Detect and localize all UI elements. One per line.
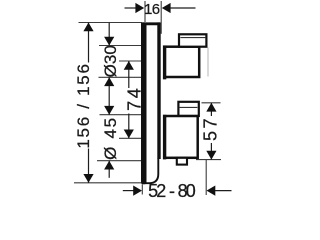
plate right edge (thick, upper part) — [157, 22, 160, 159]
upper knob main left edge (thick) — [163, 45, 166, 79]
lower knob top cap — [178, 102, 198, 116]
extension line 16 left — [144, 1, 146, 22]
plate inner line lower right + bottom edge — [142, 159, 159, 184]
tick Ø45 bottom — [97, 160, 141, 162]
dim line Ø30/Ø45 chain — [108, 23, 110, 46]
dim line 74 — [128, 61, 130, 88]
arrow 74 bottom (down) — [124, 130, 134, 139]
plate top edge — [141, 22, 161, 25]
tick Ø45 top — [100, 114, 142, 116]
arrow 16 left (right-pointing) — [135, 3, 144, 13]
arrow 156 top (up) — [83, 23, 93, 32]
arrow 52-80 right (left-pointing) — [207, 186, 216, 196]
tick 74 top — [119, 60, 141, 62]
dim 52-80 leader left — [123, 190, 134, 192]
tick 57 bottom — [196, 159, 221, 161]
arrow Ø30 top (down, above tick) — [104, 37, 114, 46]
arrow Ø30 bottom (up, below tick) — [104, 77, 114, 86]
svg-text:156 / 156: 156 / 156 — [74, 62, 93, 148]
svg-text:57: 57 — [201, 116, 221, 141]
svg-text:Ø 45: Ø 45 — [101, 116, 120, 160]
arrow 74 top (up) — [124, 61, 134, 70]
extension line 52-80 left — [141, 185, 143, 195]
svg-text:Ø30: Ø30 — [101, 45, 120, 77]
dim 16 leader right — [170, 7, 195, 9]
lower knob main body — [164, 116, 197, 158]
arrow 57 bottom (down) — [206, 151, 216, 160]
tick Ø30 bottom — [99, 76, 142, 78]
tick Ø30 top — [99, 45, 141, 47]
arrow 16 right (left-pointing) — [162, 3, 171, 13]
arrow 156 bottom (down) — [83, 174, 93, 183]
upper knob main body — [164, 47, 199, 77]
tick 74 bottom — [119, 137, 141, 139]
arrow 52-80 left (right-pointing) — [133, 186, 142, 196]
dim line 57 — [210, 103, 212, 116]
dim line 156/156 — [88, 23, 90, 63]
extension line 156/156 bottom — [74, 182, 141, 184]
faint front-face line upper knob — [207, 48, 209, 77]
extension line 52-80 right — [205, 160, 207, 195]
arrow Ø45 top (down, above tick) — [104, 106, 114, 115]
lower knob bottom tab — [177, 158, 187, 165]
dim 52-80 leader right — [215, 190, 232, 192]
arrow Ø45 bottom (up, below tick) — [104, 161, 114, 170]
lower knob main left edge (thick) — [163, 115, 166, 160]
extension line 156/156 top — [79, 22, 143, 24]
svg-text:16: 16 — [144, 1, 160, 18]
svg-text:52 - 80: 52 - 80 — [148, 181, 196, 200]
upper knob top cap — [179, 34, 206, 46]
dim 16 leader left — [125, 7, 136, 9]
lower knob cap inner line — [180, 106, 198, 108]
tick 57 top — [202, 102, 221, 104]
plate left edge (thick bar) — [141, 22, 147, 184]
arrow 57 top (up) — [206, 103, 216, 112]
extension line 16 right — [160, 1, 162, 34]
upper knob cap inner line — [180, 37, 206, 39]
